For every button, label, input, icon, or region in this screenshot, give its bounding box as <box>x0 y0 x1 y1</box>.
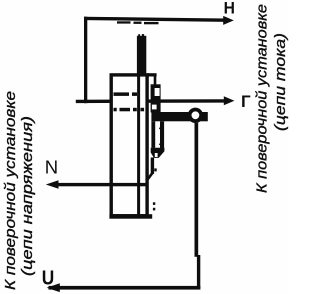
body bottom edge bar <box>109 214 152 219</box>
clip stem nub <box>154 168 156 171</box>
arrowhead H <box>223 16 234 25</box>
wire H top horizontal <box>84 17 226 22</box>
wire U horizontal <box>49 286 201 290</box>
dashes under H wire <box>117 21 131 23</box>
tick right of body lower 1 <box>153 202 155 205</box>
dashed line row 1 <box>114 92 130 96</box>
strip hole upper <box>155 88 160 96</box>
svg-text:N: N <box>45 156 58 177</box>
bracket bar <box>151 112 207 121</box>
svg-text:Г: Г <box>241 92 251 111</box>
top edge drop to strip <box>154 76 157 86</box>
clip stem <box>151 158 154 174</box>
svg-text:Н: Н <box>224 0 235 18</box>
wire N <box>57 183 147 186</box>
dashed line row 2 <box>114 108 117 112</box>
wire left vertical <box>84 17 87 104</box>
channel tick 1 <box>159 128 161 130</box>
clip stem jog diagonal <box>146 173 154 180</box>
rod left edge inside body <box>137 76 140 215</box>
svg-text:К поверочной установке: К поверочной установке <box>254 4 271 193</box>
rod top nubs <box>138 34 140 36</box>
svg-text:U: U <box>42 267 55 290</box>
device body <box>111 75 147 216</box>
wire U vertical <box>195 123 199 257</box>
channel right wall <box>160 121 164 151</box>
strip hole middle <box>152 105 157 110</box>
wire Г horizontal <box>76 99 225 103</box>
rod (primary busbar) <box>137 36 146 76</box>
channel tick 2 <box>159 144 161 145</box>
clip hook notch <box>155 153 158 157</box>
channel left wall <box>151 121 155 148</box>
arrowhead Г <box>224 96 235 105</box>
tick right of body lower 2 <box>153 208 155 211</box>
terminal circle <box>190 110 202 122</box>
body top edge extension <box>147 73 157 76</box>
arrowhead N <box>46 180 59 188</box>
svg-text:(цепи тока): (цепи тока) <box>272 33 289 131</box>
arrowhead U <box>47 283 60 292</box>
svg-text:К поверочной установке: К поверочной установке <box>2 91 19 290</box>
svg-text:(цепи напряжения): (цепи напряжения) <box>19 116 36 276</box>
clip hook <box>151 148 165 158</box>
right terminal strip <box>151 84 161 112</box>
